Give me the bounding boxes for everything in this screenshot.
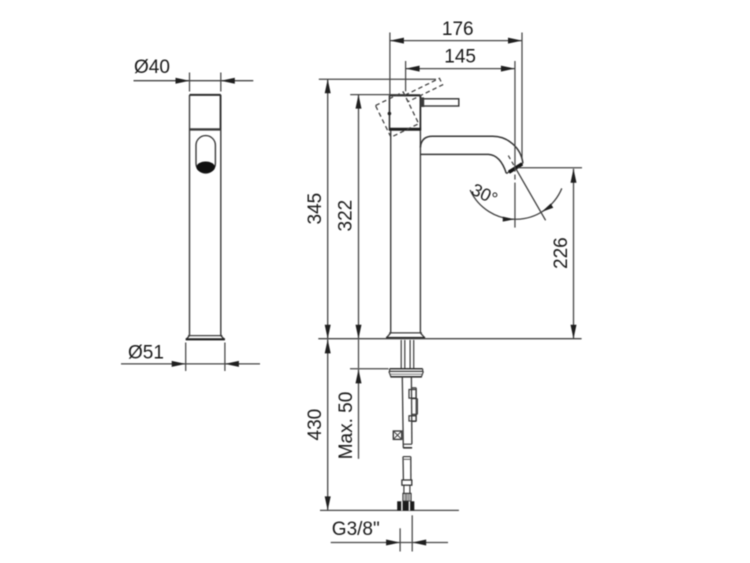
svg-text:Max. 50: Max. 50 xyxy=(336,392,357,460)
svg-text:226: 226 xyxy=(551,237,572,269)
svg-text:176: 176 xyxy=(442,19,474,40)
svg-text:Ø51: Ø51 xyxy=(128,343,164,364)
svg-text:G3/8": G3/8" xyxy=(332,519,380,540)
svg-text:345: 345 xyxy=(305,193,326,225)
svg-text:145: 145 xyxy=(444,46,476,67)
svg-text:430: 430 xyxy=(305,409,326,441)
svg-text:Ø40: Ø40 xyxy=(134,57,170,78)
svg-text:322: 322 xyxy=(336,200,357,232)
